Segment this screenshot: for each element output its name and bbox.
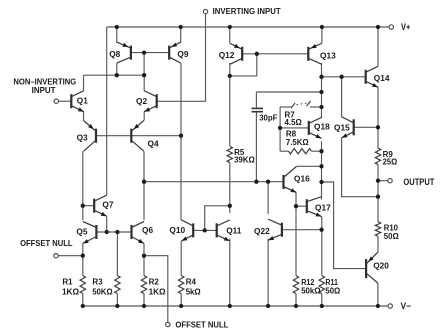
wire Q18 emitter node vertical xyxy=(321,141,323,182)
svg-text:50kΩ: 50kΩ xyxy=(301,286,321,295)
transistor Q17 xyxy=(307,197,322,217)
label Q10 xyxy=(169,225,185,235)
junction V+ / Q9 emitter xyxy=(179,25,183,29)
transistor Q14 xyxy=(366,66,378,87)
junction Q15 emitter tap xyxy=(376,195,380,199)
label R10 value xyxy=(384,224,400,242)
svg-text:5kΩ: 5kΩ xyxy=(186,287,202,296)
wire Q3-Q4 base line xyxy=(96,135,181,137)
junction Q18 base / R7-R8 node xyxy=(278,126,282,130)
wire Q5-Q6 base rail xyxy=(96,231,131,233)
transistor Q15 xyxy=(342,117,354,138)
transistor Q1 xyxy=(71,91,84,112)
junction offset null 2 / Q6 emitter xyxy=(142,254,146,258)
wire output lead xyxy=(378,180,388,182)
wire Q12-Q13 base rail xyxy=(242,53,308,55)
junction Q16 emitter / Q17 base xyxy=(294,204,298,208)
wire Q9 collector to Q10 collector xyxy=(180,63,182,220)
label Q12 xyxy=(219,50,235,60)
label R9 value xyxy=(383,150,398,167)
transistor Q6 xyxy=(132,222,145,244)
resistor R3 xyxy=(115,276,120,294)
label Q11 xyxy=(226,226,242,236)
wire Q7 emitter drop xyxy=(106,216,108,232)
label OFFSET NULL 1 xyxy=(20,238,72,248)
wire R9 to output node xyxy=(377,164,379,221)
wire Q7 base lead xyxy=(83,205,94,207)
resistor R4 xyxy=(179,276,184,294)
resistor R7 trim marks xyxy=(291,101,311,108)
junction V- / Q11 emitter xyxy=(228,304,232,308)
label Q9 xyxy=(177,49,188,59)
label Q4 xyxy=(148,139,159,149)
wire R7 top line right xyxy=(310,106,322,108)
svg-text:INVERTING INPUT: INVERTING INPUT xyxy=(213,6,282,16)
wire R3 branch xyxy=(116,232,118,276)
terminal offset null 2 xyxy=(166,322,170,326)
svg-text:30pF: 30pF xyxy=(259,113,277,123)
terminal non-inverting input xyxy=(54,99,58,103)
transistor Q12 xyxy=(230,43,242,64)
junction V+ / Q13 emitter xyxy=(320,25,324,29)
wire Q1/Q2 collectors line xyxy=(84,74,145,76)
label R4 value xyxy=(186,278,202,297)
label R12 value xyxy=(301,278,321,296)
wire R2 to V- xyxy=(143,294,145,306)
transistor Q22 xyxy=(268,219,282,240)
junction Q8 collector node xyxy=(115,73,119,77)
label Q7 xyxy=(102,199,113,209)
resistor R11 xyxy=(319,276,324,294)
svg-text:R4: R4 xyxy=(186,278,197,287)
svg-text:Q5: Q5 xyxy=(76,227,87,237)
junction offset null 1 / Q5 emitter xyxy=(81,254,85,258)
transistor Q9 xyxy=(169,42,181,63)
terminal inverting input xyxy=(203,9,207,13)
junction output node xyxy=(376,179,380,183)
svg-text:Q7: Q7 xyxy=(102,199,113,209)
resistor R10 xyxy=(375,222,380,236)
wire R3 to V- xyxy=(116,294,118,306)
transistor Q11 xyxy=(217,220,230,241)
wire Q11 base tie xyxy=(205,206,230,231)
transistor Q13 xyxy=(308,43,322,64)
svg-text:Q11: Q11 xyxy=(226,226,242,236)
junction Q16 collector node xyxy=(319,164,323,168)
junction V- / R4 xyxy=(179,304,183,308)
transistor Q18 xyxy=(309,117,322,138)
junction V- / R2 xyxy=(142,304,146,308)
capacitor C1 30pF xyxy=(252,108,264,111)
wire Q13 collector down xyxy=(321,63,323,118)
junction Q22 collector / gain node xyxy=(266,180,270,184)
svg-text:Q22: Q22 xyxy=(254,226,270,236)
wire Q10 emitter to R4 xyxy=(180,241,182,276)
wire Q8-Q9 base rail xyxy=(131,52,169,54)
transistor Q2 xyxy=(144,91,157,112)
label Q15 xyxy=(334,122,350,132)
label R1 value xyxy=(62,278,80,297)
label INVERTING INPUT xyxy=(213,6,282,16)
resistor R1 xyxy=(80,276,85,294)
label Q14 xyxy=(374,73,390,83)
junction R3 tap on base rail xyxy=(115,230,119,234)
svg-text:Q20: Q20 xyxy=(373,261,389,271)
resistor R5 xyxy=(227,146,232,162)
label Q17 xyxy=(315,203,331,213)
wire Q13 emitter drop xyxy=(321,27,323,43)
label Q16 xyxy=(294,173,310,183)
junction V- / R11 xyxy=(320,304,324,308)
label OUTPUT xyxy=(403,177,434,187)
wire Q22 collector up xyxy=(267,182,269,214)
resistor R9 xyxy=(375,148,380,164)
transistor Q5 xyxy=(83,222,97,244)
svg-text:Q8: Q8 xyxy=(109,49,120,59)
svg-text:Q18: Q18 xyxy=(314,121,330,131)
wire R11 to V- xyxy=(321,294,323,306)
wire cap bottom lead xyxy=(255,112,257,181)
svg-text:25Ω: 25Ω xyxy=(383,158,398,167)
label Q2 xyxy=(136,96,147,106)
label R3 value xyxy=(92,278,113,297)
junction Q7 emitter / Q5-Q6 base rail xyxy=(105,230,109,234)
wire Q15 emitter down xyxy=(342,138,378,197)
junction Q4-Q6 collectors / gain node xyxy=(142,180,146,184)
wire R8 left lead xyxy=(280,150,288,152)
resistor R12 xyxy=(293,276,298,294)
junction node Q3/Q4 bases - Q9/Q10 collectors xyxy=(179,134,183,138)
wire Q17 emitter to R11 xyxy=(321,217,323,276)
label V- xyxy=(401,301,412,311)
wire Q14 emitter to R9 xyxy=(377,87,379,148)
wire Q8 collector drop xyxy=(116,63,118,75)
label NON-INVERTING INPUT xyxy=(13,76,76,95)
junction Q22 base / Q17 emitter / R11 xyxy=(319,228,323,232)
svg-text:R10: R10 xyxy=(384,224,399,233)
label Q8 xyxy=(109,49,120,59)
junction V- / Q20 collector xyxy=(376,304,380,308)
svg-text:R2: R2 xyxy=(149,278,160,287)
junction V+ / Q14 collector xyxy=(376,25,380,29)
junction C1 top / Q13 collector line xyxy=(319,90,323,94)
wire R1 to V- xyxy=(82,294,84,306)
wire Q5 emitter to R1 xyxy=(82,244,84,276)
label Q18 xyxy=(314,121,330,131)
label V+ xyxy=(401,22,410,32)
junction V+ / Q8 emitter xyxy=(115,25,119,29)
wire Q15 collector up xyxy=(341,77,343,117)
junction Q13 collector / Q14 base xyxy=(319,75,323,79)
node gain-stage input line xyxy=(144,181,284,183)
svg-text:Q12: Q12 xyxy=(219,50,235,60)
wire Q12 emitter drop xyxy=(229,27,231,43)
junction Q10-Q11 base rail tap xyxy=(203,228,207,232)
wire Q6 emitter to R2 xyxy=(143,244,145,276)
svg-text:Q10: Q10 xyxy=(169,225,185,235)
junction V- / R12 xyxy=(294,304,298,308)
terminal V- xyxy=(388,304,392,308)
transistor Q10 xyxy=(182,220,194,241)
wire V- rail xyxy=(83,305,388,307)
svg-text:50Ω: 50Ω xyxy=(384,232,400,241)
wire Q20 collector to V- xyxy=(377,283,379,306)
junction Q15 collector / Q14 base line xyxy=(339,75,343,79)
junction V- / Q22 emitter xyxy=(266,304,270,308)
wire Q12 collector / R5 chain upper xyxy=(229,63,231,146)
wire cap top lead xyxy=(255,92,257,108)
svg-text:50KΩ: 50KΩ xyxy=(92,287,113,296)
label OFFSET NULL 2 xyxy=(175,320,228,330)
svg-text:Q6: Q6 xyxy=(142,225,153,235)
junction Q15 base / Q14 emitter xyxy=(376,125,380,129)
wire non-inverting input lead xyxy=(59,100,72,102)
svg-text:Q9: Q9 xyxy=(177,49,188,59)
junction Q12 collector diode node xyxy=(228,74,232,78)
svg-text:Q4: Q4 xyxy=(148,139,159,149)
wire Q8 emitter drop xyxy=(116,27,118,43)
svg-text:INPUT: INPUT xyxy=(32,85,57,95)
junction Q8-Q9 base tie xyxy=(142,50,146,54)
label Q1 xyxy=(77,96,88,106)
transistor Q20 xyxy=(366,252,378,283)
svg-text:Q13: Q13 xyxy=(320,51,336,61)
junction V- / R1 xyxy=(81,304,85,308)
svg-text:R3: R3 xyxy=(92,278,103,287)
junction Q1-Q2 collectors / tie xyxy=(142,73,146,77)
label Q20 xyxy=(373,261,389,271)
transistor Q8 xyxy=(117,42,131,63)
wire Q1-Q3 emitter link xyxy=(83,112,85,121)
svg-text:Q1: Q1 xyxy=(77,96,88,106)
wire Q2-Q4 emitter link xyxy=(143,112,145,121)
wire Q2 collector up xyxy=(143,75,145,91)
svg-text:R1: R1 xyxy=(62,278,73,287)
transistor Q4 xyxy=(131,121,144,152)
svg-text:1KΩ: 1KΩ xyxy=(62,287,80,296)
wire offset null 2 branch xyxy=(144,256,168,323)
svg-text:4.5Ω: 4.5Ω xyxy=(285,118,303,127)
wire Q3 collector down xyxy=(82,151,84,220)
wire R5 to Q11 collector xyxy=(229,162,231,213)
terminal OUTPUT xyxy=(388,179,392,183)
wire Q9 emitter drop xyxy=(180,27,182,43)
wire offset null left lead xyxy=(58,255,82,257)
resistor R2 xyxy=(141,276,146,294)
junction C1 bottom / gain node xyxy=(254,180,258,184)
terminal offset null 1 xyxy=(54,254,58,258)
label Q6 xyxy=(142,225,153,235)
transistor Q7 xyxy=(94,195,107,216)
wire R7 top line left xyxy=(280,106,292,108)
label 30pF xyxy=(259,113,277,123)
wire V+ rail xyxy=(107,26,389,28)
wire R12 to V- xyxy=(295,294,297,306)
svg-text:V+: V+ xyxy=(401,22,410,32)
wire Q11 emitter to V- xyxy=(229,239,231,306)
label R11 value xyxy=(325,278,340,296)
svg-text:Q3: Q3 xyxy=(77,133,88,143)
wire Q17 collector up xyxy=(321,182,323,200)
wire Q18 base lead xyxy=(280,127,309,129)
junction Q12-Q13 base tie xyxy=(255,52,259,56)
wire Q14 collector up xyxy=(377,27,379,66)
wire Q22 base line xyxy=(282,229,322,231)
wire R10 to Q20 emitter xyxy=(377,236,379,252)
wire Q4 collector down xyxy=(143,151,145,220)
wire cap top line xyxy=(256,91,321,93)
label R2 value xyxy=(149,278,167,297)
svg-text:OUTPUT: OUTPUT xyxy=(403,177,434,187)
wire Q1 collector up xyxy=(83,75,85,91)
wire R8 right lead xyxy=(312,150,322,152)
resistor R8 xyxy=(289,149,312,154)
wire Q13 collector to Q14 base xyxy=(322,76,366,78)
label Q22 xyxy=(254,226,270,236)
wire inverting input drop xyxy=(157,14,206,101)
wire Q12 base-collector tie xyxy=(230,54,257,76)
junction R7 / Q18 collector xyxy=(319,105,323,109)
svg-text:7.5KΩ: 7.5KΩ xyxy=(286,138,309,147)
svg-text:Q16: Q16 xyxy=(294,173,310,183)
svg-text:50Ω: 50Ω xyxy=(325,286,340,295)
svg-text:Q2: Q2 xyxy=(136,96,147,106)
svg-text:OFFSET NULL: OFFSET NULL xyxy=(175,320,228,330)
svg-text:1KΩ: 1KΩ xyxy=(149,287,167,296)
wire Q20 base tie xyxy=(322,182,367,269)
label Q13 xyxy=(320,51,336,61)
transistor Q16 xyxy=(284,167,297,193)
wire Q22 emitter to V- xyxy=(267,239,269,306)
junction Q3 collector / Q7 base / Q5 collector xyxy=(81,204,85,208)
wire Q8 base-collector tie xyxy=(143,53,145,76)
label Q3 xyxy=(77,133,88,143)
terminal V+ xyxy=(389,25,393,29)
wire R7 branch down xyxy=(279,107,281,151)
junction R8 / Q18 emitter xyxy=(319,149,323,153)
transistor Q3 xyxy=(84,121,97,152)
wire R4 to V- xyxy=(180,294,182,306)
svg-text:Q15: Q15 xyxy=(334,122,350,132)
label R7 value xyxy=(285,110,303,127)
wire Q16 collector line xyxy=(296,165,321,167)
wire Q10-Q11 base rail xyxy=(193,229,217,231)
wire Q15 base lead xyxy=(354,126,378,128)
svg-text:Q17: Q17 xyxy=(315,203,331,213)
junction V- / R3 xyxy=(115,304,119,308)
wire Q16 emitter / Q17 base vertical xyxy=(295,192,297,275)
svg-text:V−: V− xyxy=(401,301,412,311)
junction Q11 collector diode node xyxy=(228,204,232,208)
junction V+ / Q12 emitter xyxy=(228,25,232,29)
junction Q17 collector / Q20 base node xyxy=(319,180,323,184)
svg-text:OFFSET NULL: OFFSET NULL xyxy=(20,238,72,248)
wire V+ left drop to Q7 collector xyxy=(106,27,108,195)
label Q5 xyxy=(76,227,87,237)
label R8 value xyxy=(286,130,309,148)
label R5 value xyxy=(234,148,255,164)
svg-text:39KΩ: 39KΩ xyxy=(234,155,255,164)
svg-text:Q14: Q14 xyxy=(374,73,390,83)
wire Q17 base lead xyxy=(296,205,307,207)
